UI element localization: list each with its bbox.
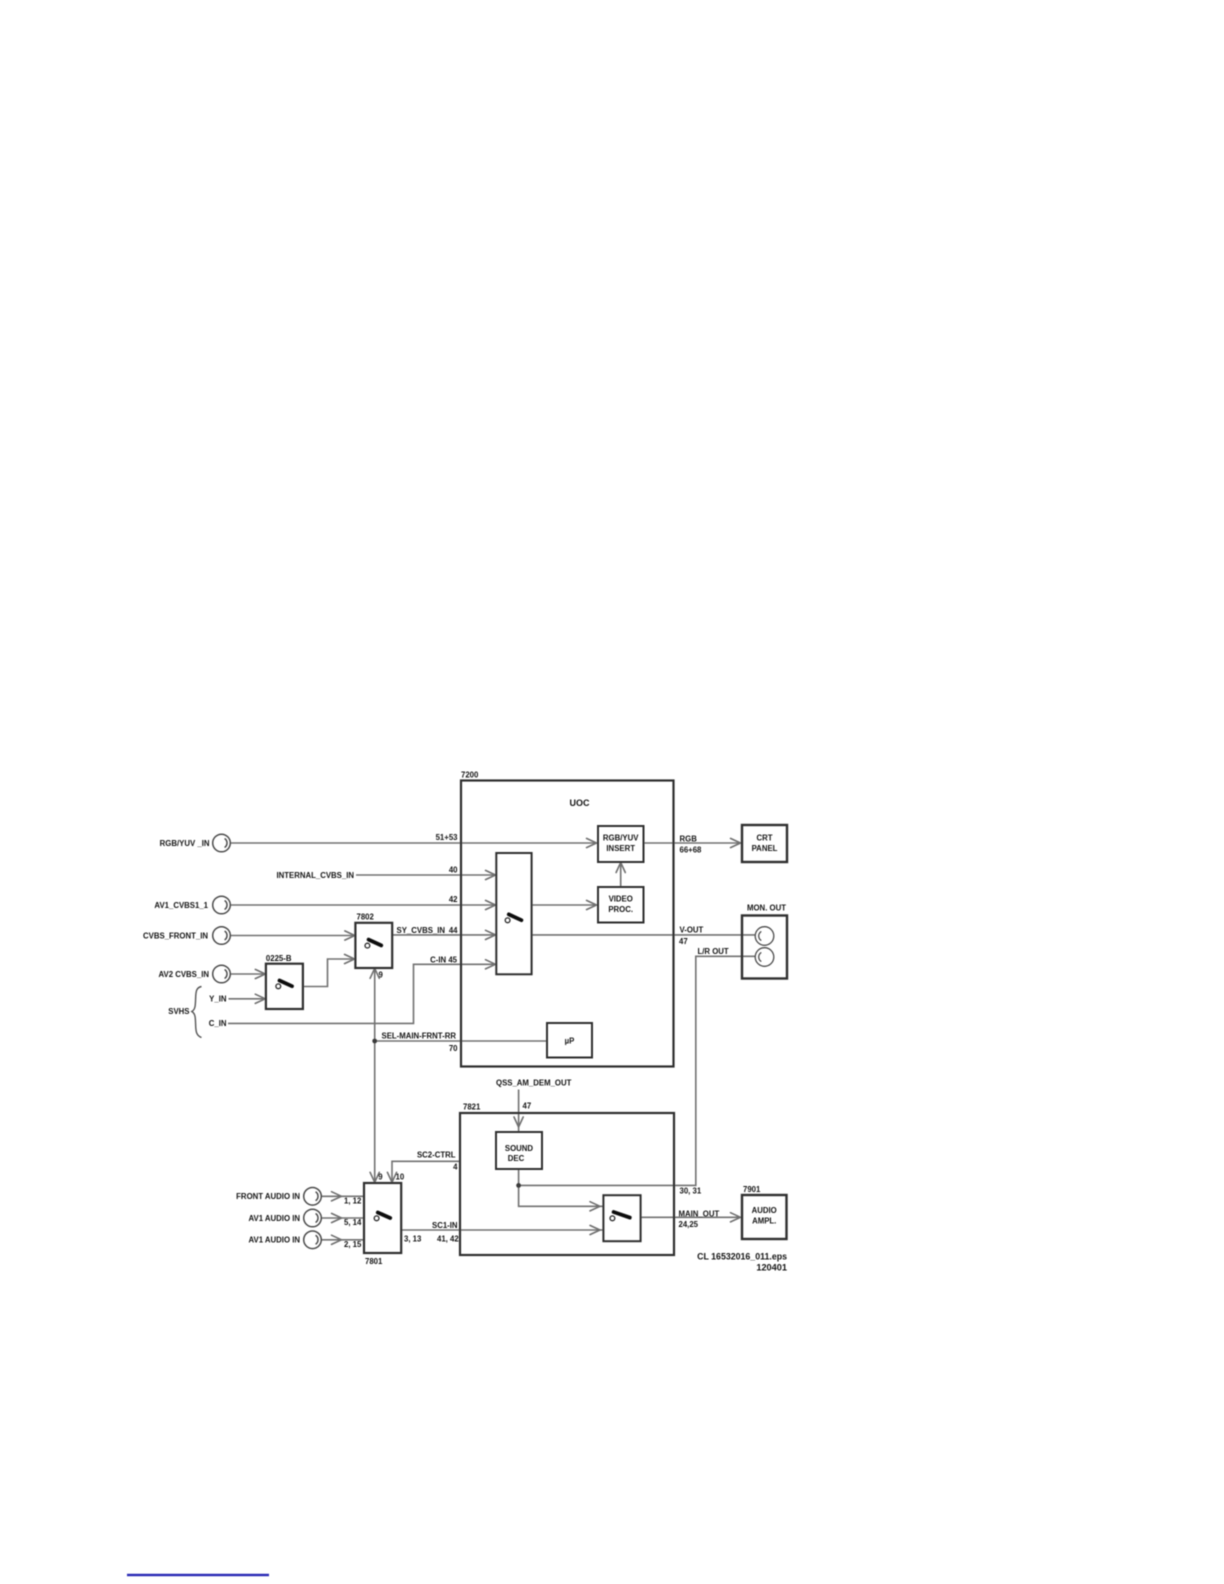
svg-text:30, 31: 30, 31 xyxy=(680,1187,702,1196)
svg-text:AMPL.: AMPL. xyxy=(752,1217,776,1226)
svg-text:MON. OUT: MON. OUT xyxy=(747,904,786,913)
svg-text:9: 9 xyxy=(378,1173,383,1182)
svg-text:SVHS: SVHS xyxy=(168,1007,189,1016)
svg-text:SEL-MAIN-FRNT-RR: SEL-MAIN-FRNT-RR xyxy=(382,1032,457,1041)
svg-text:PROC.: PROC. xyxy=(608,905,633,914)
svg-text:CVBS_FRONT_IN: CVBS_FRONT_IN xyxy=(143,931,208,940)
svg-text:QSS_AM_DEM_OUT: QSS_AM_DEM_OUT xyxy=(496,1079,572,1088)
svg-text:7901: 7901 xyxy=(743,1185,761,1194)
svg-text:PANEL: PANEL xyxy=(752,844,778,853)
svg-text:40: 40 xyxy=(449,866,458,875)
svg-text:41, 42: 41, 42 xyxy=(437,1235,459,1244)
svg-text:C_IN: C_IN xyxy=(209,1019,227,1028)
svg-text:AV1_CVBS1_1: AV1_CVBS1_1 xyxy=(154,901,208,910)
svg-text:47: 47 xyxy=(523,1102,532,1111)
svg-text:L/R OUT: L/R OUT xyxy=(698,947,729,956)
svg-text:7802: 7802 xyxy=(357,913,375,922)
svg-text:V-OUT: V-OUT xyxy=(680,926,704,935)
svg-text:RGB/YUV _IN: RGB/YUV _IN xyxy=(160,839,210,848)
svg-text:C-IN 45: C-IN 45 xyxy=(430,956,458,965)
svg-text:7821: 7821 xyxy=(463,1103,481,1112)
svg-text:INSERT: INSERT xyxy=(606,844,635,853)
svg-text:70: 70 xyxy=(449,1044,458,1053)
svg-text:AV1 AUDIO IN: AV1 AUDIO IN xyxy=(248,1214,300,1223)
svg-text:44: 44 xyxy=(449,926,458,935)
svg-text:3, 13: 3, 13 xyxy=(404,1235,422,1244)
svg-text:CL 16532016_011.eps: CL 16532016_011.eps xyxy=(697,1252,787,1262)
svg-text:AV1 AUDIO IN: AV1 AUDIO IN xyxy=(248,1236,300,1245)
svg-text:CRT: CRT xyxy=(756,834,772,843)
svg-text:7200: 7200 xyxy=(461,771,479,780)
svg-text:120401: 120401 xyxy=(756,1263,787,1273)
svg-text:Y_IN: Y_IN xyxy=(209,995,227,1004)
svg-text:UOC: UOC xyxy=(570,798,591,808)
svg-text:7801: 7801 xyxy=(365,1257,383,1266)
svg-text:MAIN_OUT: MAIN_OUT xyxy=(679,1209,720,1218)
svg-text:24,25: 24,25 xyxy=(679,1220,699,1229)
svg-text:0225-B: 0225-B xyxy=(266,954,292,963)
svg-text:DEC: DEC xyxy=(508,1154,525,1163)
svg-text:47: 47 xyxy=(679,937,688,946)
svg-text:AV2 CVBS_IN: AV2 CVBS_IN xyxy=(158,970,209,979)
svg-text:RGB: RGB xyxy=(680,835,698,844)
svg-text:66+68: 66+68 xyxy=(680,846,703,855)
svg-text:10: 10 xyxy=(396,1173,405,1182)
svg-text:9: 9 xyxy=(379,971,384,980)
svg-text:2, 15: 2, 15 xyxy=(344,1240,362,1249)
svg-text:SC1-IN: SC1-IN xyxy=(432,1221,458,1230)
svg-text:42: 42 xyxy=(449,895,458,904)
svg-text:1, 12: 1, 12 xyxy=(344,1197,362,1206)
svg-text:µP: µP xyxy=(565,1037,575,1046)
svg-text:4: 4 xyxy=(453,1163,458,1172)
svg-text:5, 14: 5, 14 xyxy=(344,1218,362,1227)
svg-text:RGB/YUV: RGB/YUV xyxy=(603,834,639,843)
svg-text:SC2-CTRL: SC2-CTRL xyxy=(417,1151,456,1160)
svg-text:INTERNAL_CVBS_IN: INTERNAL_CVBS_IN xyxy=(276,871,354,880)
svg-text:FRONT AUDIO IN: FRONT AUDIO IN xyxy=(236,1192,300,1201)
svg-text:51+53: 51+53 xyxy=(436,833,459,842)
svg-text:VIDEO: VIDEO xyxy=(609,895,633,904)
svg-text:AUDIO: AUDIO xyxy=(752,1206,777,1215)
svg-text:SY_CVBS_IN: SY_CVBS_IN xyxy=(397,926,446,935)
svg-text:SOUND: SOUND xyxy=(505,1144,534,1153)
